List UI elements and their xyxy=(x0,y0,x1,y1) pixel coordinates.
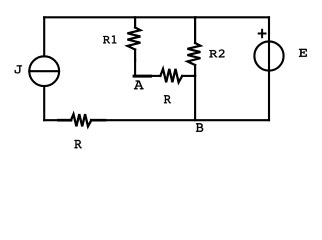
node B label xyxy=(196,123,203,132)
wire R2 branch to node B xyxy=(194,76,196,120)
label J xyxy=(15,65,22,73)
label R1 xyxy=(103,35,117,43)
wire left branch upper xyxy=(43,17,45,56)
voltage source E xyxy=(254,41,283,70)
resistor R middle xyxy=(150,69,194,82)
wire right branch xyxy=(268,17,270,120)
resistor R2 xyxy=(187,17,200,76)
node A label xyxy=(134,81,144,90)
label R bottom xyxy=(74,140,81,148)
label R2 xyxy=(209,50,224,58)
wire bottom rail right xyxy=(105,119,269,121)
label R middle xyxy=(164,95,171,103)
wire R1 to node A corner xyxy=(134,61,136,76)
wire node A stub (thick) xyxy=(134,75,150,78)
current source J xyxy=(29,56,59,86)
resistor R bottom xyxy=(59,114,105,126)
wire middle joins R2 branch xyxy=(194,75,195,77)
wire bottom rail left xyxy=(44,119,59,121)
polarity plus xyxy=(259,30,266,37)
label E xyxy=(299,49,307,57)
wire top rail xyxy=(44,16,269,18)
resistor R1 xyxy=(127,17,140,60)
wire left branch lower xyxy=(43,86,45,120)
